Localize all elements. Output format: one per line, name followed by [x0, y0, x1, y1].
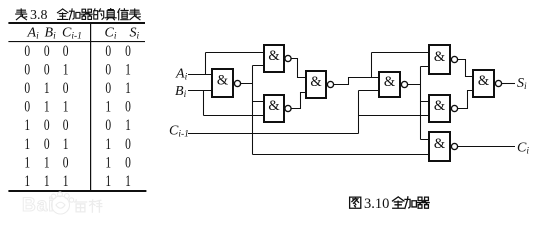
svg-text:0: 0 — [125, 155, 131, 172]
svg-text:Ai: Ai — [27, 26, 40, 42]
svg-text:&: & — [478, 73, 490, 89]
svg-text:1: 1 — [105, 136, 111, 153]
svg-text:0: 0 — [24, 80, 30, 97]
svg-text:1: 1 — [125, 62, 131, 79]
svg-text:&: & — [217, 72, 229, 88]
svg-text:&: & — [310, 74, 322, 90]
svg-text:0: 0 — [44, 136, 50, 153]
svg-text:1: 1 — [44, 173, 50, 190]
svg-text:0: 0 — [44, 62, 50, 79]
svg-text:Ci: Ci — [517, 141, 529, 157]
svg-text:1: 1 — [105, 155, 111, 172]
svg-text:Bai: Bai — [22, 195, 55, 216]
svg-text:1: 1 — [125, 173, 131, 190]
svg-text:Si: Si — [130, 26, 140, 42]
svg-text:&: & — [268, 98, 280, 114]
svg-text:&: & — [384, 74, 396, 90]
svg-text:1: 1 — [63, 99, 69, 116]
svg-text:0: 0 — [44, 118, 50, 135]
svg-text:3.8: 3.8 — [30, 8, 48, 23]
svg-text:1: 1 — [24, 155, 30, 172]
svg-text:3.10: 3.10 — [364, 196, 389, 212]
svg-text:1: 1 — [24, 118, 30, 135]
svg-text:0: 0 — [125, 136, 131, 153]
svg-text:1: 1 — [105, 99, 111, 116]
svg-text:0: 0 — [44, 43, 50, 60]
svg-text:&: & — [434, 98, 446, 114]
svg-text:1: 1 — [63, 136, 69, 153]
svg-text:0: 0 — [63, 118, 69, 135]
svg-text:0: 0 — [105, 118, 111, 135]
svg-text:1: 1 — [24, 136, 30, 153]
svg-text:0: 0 — [105, 62, 111, 79]
svg-text:1: 1 — [44, 80, 50, 97]
svg-text:0: 0 — [24, 43, 30, 60]
svg-text:Ci: Ci — [105, 26, 117, 42]
svg-text:0: 0 — [24, 99, 30, 116]
svg-text:1: 1 — [125, 118, 131, 135]
svg-text:1: 1 — [125, 80, 131, 97]
svg-text:0: 0 — [63, 43, 69, 60]
svg-text:1: 1 — [44, 155, 50, 172]
svg-text:1: 1 — [63, 62, 69, 79]
svg-text:0: 0 — [63, 80, 69, 97]
svg-text:&: & — [434, 136, 446, 152]
svg-text:0: 0 — [105, 80, 111, 97]
svg-text:&: & — [434, 49, 446, 65]
svg-text:0: 0 — [125, 99, 131, 116]
svg-text:Si: Si — [517, 76, 527, 92]
svg-text:Bi: Bi — [45, 26, 57, 42]
svg-text:1: 1 — [63, 173, 69, 190]
svg-text:Bi: Bi — [175, 84, 187, 100]
svg-text:1: 1 — [44, 99, 50, 116]
svg-text:1: 1 — [105, 173, 111, 190]
svg-text:Ci-1: Ci-1 — [62, 26, 82, 42]
svg-text:0: 0 — [125, 43, 131, 60]
svg-text:Ai: Ai — [175, 67, 188, 83]
svg-text:Ci-1: Ci-1 — [169, 124, 189, 140]
svg-text:0: 0 — [105, 43, 111, 60]
svg-text:&: & — [268, 48, 280, 64]
svg-text:0: 0 — [63, 155, 69, 172]
svg-text:1: 1 — [24, 173, 30, 190]
svg-text:0: 0 — [24, 62, 30, 79]
